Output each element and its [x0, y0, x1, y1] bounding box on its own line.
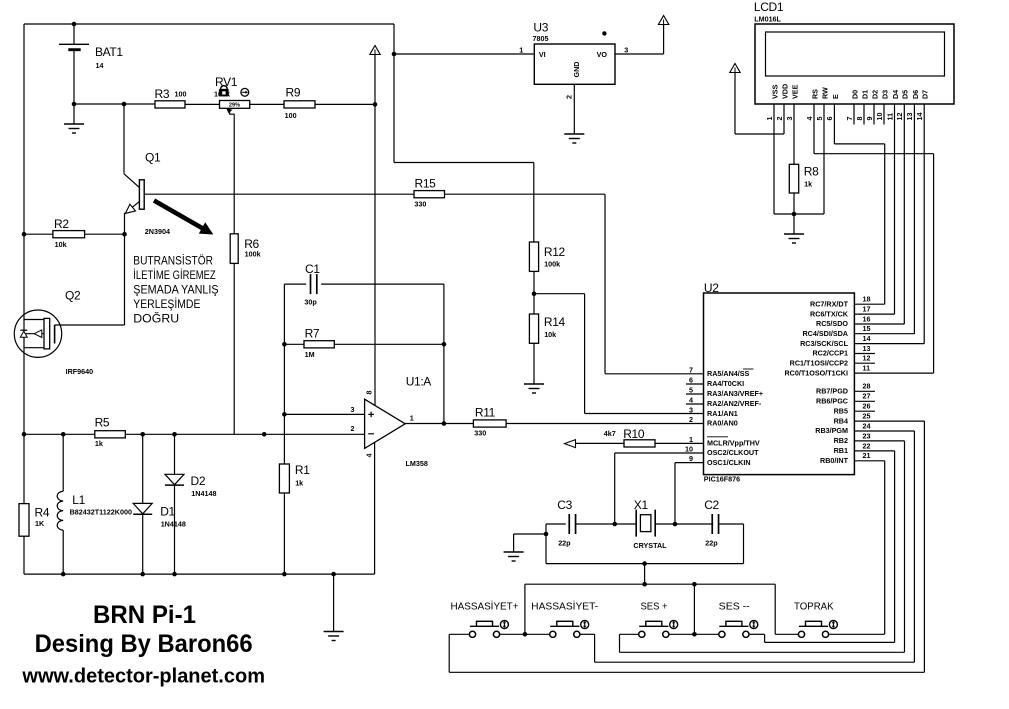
- svg-text:RC3/SCK/SCL: RC3/SCK/SCL: [800, 339, 849, 348]
- node OSC1 tap: [673, 522, 678, 527]
- node button rail center: [642, 582, 647, 587]
- wire VDD: [735, 133, 784, 135]
- wire R10 to U2 MCLR: [655, 442, 704, 444]
- svg-text:18: 18: [863, 295, 871, 304]
- svg-text:1N4148: 1N4148: [191, 489, 216, 498]
- wire OSC1 to crystal: [674, 463, 676, 524]
- svg-text:RB5: RB5: [834, 406, 848, 415]
- wire R15 to U2 RA5: [445, 193, 606, 195]
- icon RV1 adjust circle-arrow: [241, 88, 249, 96]
- svg-text:RS: RS: [810, 89, 819, 99]
- wire D7 to RC3: [923, 104, 925, 344]
- svg-text:HASSASİYET+: HASSASİYET+: [451, 599, 519, 612]
- wire button3 left to RB2 rail: [620, 633, 639, 635]
- U2 pin 12 RC1/T1OSI/CCP2: [854, 362, 875, 364]
- button HASSASIYET+: [469, 631, 475, 637]
- button TOPRAK: [798, 631, 804, 637]
- svg-text:D7: D7: [921, 90, 930, 99]
- svg-text:1: 1: [689, 435, 693, 444]
- U2 pin 17 RC6/TX/CK: [854, 313, 894, 315]
- svg-text:RA3/AN3/VREF+: RA3/AN3/VREF+: [707, 389, 763, 398]
- svg-text:D3: D3: [880, 90, 889, 99]
- diode D1 1N4148: [142, 434, 144, 503]
- svg-text:1: 1: [765, 117, 774, 121]
- node D2 top: [172, 432, 177, 437]
- node top-left junction: [72, 22, 77, 27]
- node R8 ground junction: [792, 212, 797, 217]
- regulator U3 7805: [534, 44, 615, 84]
- svg-text:1k: 1k: [95, 439, 103, 448]
- svg-text:330: 330: [474, 428, 486, 437]
- node Q1 emitter junction: [122, 232, 127, 237]
- node crystal loop bottom: [642, 561, 647, 566]
- U2 pin 4 RA2/AN2/VREF-: [686, 403, 704, 405]
- svg-text:4: 4: [689, 395, 693, 404]
- wire button common rail: [525, 583, 775, 585]
- U2 pin 13 RC2/CCP1: [854, 353, 875, 355]
- svg-text:9: 9: [689, 454, 693, 463]
- svg-text:2: 2: [689, 415, 693, 424]
- wire D2 stub: [873, 104, 875, 125]
- wire R9 to VCC line: [315, 103, 375, 105]
- svg-text:R2: R2: [54, 217, 69, 231]
- svg-text:22: 22: [863, 441, 871, 450]
- wire loop to button rail: [644, 564, 646, 585]
- button HASSASIYET-: [550, 631, 556, 637]
- wire bottom ground rail: [24, 573, 375, 575]
- wire R5 rail left: [22, 432, 27, 437]
- U2 pin 26 RB5: [854, 410, 875, 412]
- svg-text:100k: 100k: [245, 249, 261, 258]
- svg-text:3: 3: [624, 46, 628, 55]
- wire RB1 riser: [894, 451, 896, 643]
- svg-text:L1: L1: [72, 493, 85, 507]
- wire button4 right to RB1 rail: [750, 633, 765, 635]
- svg-text:10k: 10k: [544, 330, 556, 339]
- U2 pin 22 RB1: [854, 450, 894, 452]
- wire R11 to U2 RA0: [506, 423, 703, 425]
- U2 RA5 SS overline: [743, 368, 754, 370]
- resistor R11 330: [473, 420, 506, 427]
- svg-text:R8: R8: [804, 164, 819, 178]
- wire button1 left to RB4 rail: [449, 633, 469, 635]
- svg-text:VI: VI: [539, 50, 546, 59]
- resistor R3 100: [155, 101, 185, 108]
- svg-text:RB6/PGC: RB6/PGC: [816, 397, 848, 406]
- resistor R12 100k: [529, 242, 538, 271]
- svg-text:MCLR/Vpp/THV: MCLR/Vpp/THV: [707, 439, 760, 448]
- node rail mid dot: [262, 432, 267, 437]
- svg-text:14: 14: [863, 334, 871, 343]
- svg-text:11: 11: [863, 364, 871, 373]
- crystal X1: [635, 510, 637, 537]
- power VCC arrow LCD: [730, 64, 740, 73]
- ground crystal: [514, 533, 546, 535]
- svg-text:6: 6: [825, 117, 834, 121]
- svg-text:RA0/AN0: RA0/AN0: [707, 419, 738, 428]
- svg-text:D1: D1: [860, 90, 869, 99]
- svg-text:1k: 1k: [295, 478, 303, 487]
- svg-text:LM358: LM358: [406, 459, 428, 468]
- svg-text:RC7/RX/DT: RC7/RX/DT: [810, 299, 849, 308]
- svg-text:26: 26: [863, 402, 871, 411]
- svg-text:www.detector-planet.com: www.detector-planet.com: [21, 666, 265, 688]
- svg-text:VDD: VDD: [780, 84, 789, 99]
- node U3 input junction: [392, 52, 397, 57]
- svg-text:D2: D2: [870, 90, 879, 99]
- node battery junction: [72, 102, 77, 107]
- svg-text:ŞEMADA YANLIŞ: ŞEMADA YANLIŞ: [133, 284, 219, 296]
- wire rail down to SES buttons: [693, 584, 695, 634]
- svg-text:2: 2: [775, 117, 784, 121]
- resistor R1 1k: [283, 284, 285, 464]
- svg-text:RB1: RB1: [834, 446, 848, 455]
- node L1 top: [61, 432, 66, 437]
- ic U2 PIC16F876: [704, 293, 855, 475]
- svg-text:8: 8: [855, 117, 864, 121]
- ground under R14: [524, 383, 544, 385]
- svg-text:PIC16F876: PIC16F876: [704, 475, 740, 484]
- svg-text:D1: D1: [160, 505, 175, 519]
- U2 pin 18 RC7/RX/DT: [854, 303, 884, 305]
- U2 pin 11 RC0/T1OSO/T1CKI: [854, 372, 933, 374]
- svg-text:3: 3: [689, 405, 693, 414]
- svg-text:100: 100: [285, 111, 297, 120]
- svg-text:22p: 22p: [558, 538, 571, 547]
- svg-text:RB2: RB2: [834, 436, 848, 445]
- svg-text:RC6/TX/CK: RC6/TX/CK: [810, 309, 849, 318]
- svg-text:RC2/CCP1: RC2/CCP1: [812, 349, 848, 358]
- svg-text:C3: C3: [557, 498, 572, 512]
- node R12 R14 junction: [533, 271, 535, 293]
- node op-amp output: [442, 421, 447, 426]
- svg-text:BRN Pi-1: BRN Pi-1: [93, 601, 196, 629]
- wire LCD ground rail: [774, 213, 824, 215]
- U2 pin 23 RB2: [854, 440, 904, 442]
- svg-text:U2: U2: [704, 281, 719, 295]
- svg-text:OSC2/CLKOUT: OSC2/CLKOUT: [707, 448, 759, 457]
- svg-text:12: 12: [863, 354, 871, 363]
- svg-text:BUTRANSİSTÖR: BUTRANSİSTÖR: [133, 255, 213, 268]
- wire button2 right to RB3 rail: [580, 633, 595, 635]
- wire RB4 riser: [923, 421, 925, 672]
- svg-text:İLETİME GİREMEZ: İLETİME GİREMEZ: [133, 269, 215, 282]
- svg-text:DOĞRU: DOĞRU: [133, 312, 179, 325]
- wire RV1 wiper: [230, 111, 235, 119]
- svg-text:7805: 7805: [533, 34, 549, 43]
- wire VCC down to op-amp V+: [374, 55, 376, 406]
- svg-text:LCD1: LCD1: [754, 0, 784, 14]
- svg-text:5: 5: [815, 117, 824, 121]
- wire D3 stub: [883, 104, 885, 125]
- svg-text:R15: R15: [415, 177, 437, 191]
- wire button3-button4 link: [670, 633, 719, 635]
- svg-text:5: 5: [689, 385, 693, 394]
- svg-text:RB0/INT: RB0/INT: [820, 456, 849, 465]
- wire button5 right to RB0 rail: [829, 633, 884, 635]
- svg-text:R4: R4: [35, 506, 50, 520]
- svg-text:E: E: [831, 94, 840, 99]
- svg-text:23: 23: [863, 431, 871, 440]
- svg-text:22p: 22p: [705, 538, 718, 547]
- wire crystal loop: [545, 524, 547, 564]
- wire E route: [833, 104, 835, 144]
- svg-text:R11: R11: [475, 406, 496, 420]
- resistor R9 100: [284, 101, 315, 108]
- U2 pin 6 RA4/T0CKI: [686, 383, 704, 385]
- wire BAT1 to R3: [74, 103, 155, 105]
- svg-text:OSC1/CLKIN: OSC1/CLKIN: [707, 458, 751, 467]
- svg-text:RC1/T1OSI/CCP2: RC1/T1OSI/CCP2: [790, 358, 848, 367]
- transistor Q1 2N3904: [123, 104, 125, 174]
- svg-text:D6: D6: [911, 90, 920, 99]
- svg-text:Q1: Q1: [145, 151, 161, 165]
- node Q1 collector tap: [122, 102, 127, 107]
- svg-text:11: 11: [885, 113, 894, 121]
- svg-text:1k: 1k: [804, 179, 812, 188]
- U2 pin 25 RB4: [854, 420, 924, 422]
- svg-text:R9: R9: [286, 85, 301, 99]
- svg-text:Q2: Q2: [65, 289, 81, 303]
- node SES rail tap: [692, 582, 697, 587]
- arrow MCLR input: [565, 440, 576, 448]
- ground under U3: [564, 133, 584, 135]
- svg-text:X1: X1: [634, 498, 649, 512]
- svg-text:R3: R3: [155, 87, 170, 101]
- power VCC arrow mid: [370, 46, 380, 55]
- svg-text:13: 13: [905, 113, 914, 121]
- resistor R14 10k: [533, 294, 535, 314]
- op-amp U1:A LM358: [365, 399, 406, 448]
- svg-text:B82432T1122K000: B82432T1122K000: [70, 507, 132, 516]
- svg-text:SES +: SES +: [641, 601, 668, 612]
- svg-text:1K: 1K: [35, 519, 45, 528]
- wire corner to R12: [394, 162, 534, 164]
- resistor R5 1k: [95, 431, 126, 438]
- svg-text:100: 100: [175, 89, 187, 98]
- svg-text:16: 16: [863, 314, 871, 323]
- wire left rail upper: [23, 24, 25, 504]
- svg-text:R1: R1: [295, 463, 310, 477]
- U2 pin 15 RC4/SDI/SDA: [854, 333, 914, 335]
- node SES buttons junction: [692, 632, 697, 637]
- wire crystal top rail: [546, 523, 566, 525]
- wire rail down to buttons 1-2: [524, 584, 526, 634]
- node crystal ground tap: [544, 532, 549, 537]
- svg-text:SES --: SES --: [719, 601, 750, 612]
- node R9 vcc junction: [373, 102, 378, 107]
- svg-text:HASSASİYET-: HASSASİYET-: [531, 599, 598, 612]
- svg-text:D4: D4: [891, 90, 900, 99]
- diode D2 1N4148: [174, 434, 176, 474]
- U2 MCLR overline: [707, 436, 728, 438]
- svg-text:RB4: RB4: [834, 416, 848, 425]
- svg-text:7: 7: [689, 365, 693, 374]
- resistor R7 1M: [282, 342, 287, 347]
- svg-text:RA5/AN4/SS: RA5/AN4/SS: [707, 369, 750, 378]
- svg-text:RB3/PGM: RB3/PGM: [815, 426, 848, 435]
- U2 pin 24 RB3/PGM: [854, 430, 914, 432]
- svg-text:IRF9640: IRF9640: [66, 367, 94, 376]
- wire D4 to RC6: [894, 104, 896, 314]
- wire RB0 riser: [884, 461, 886, 635]
- wire D1 stub: [863, 104, 865, 125]
- wire U3 VO pin 3: [615, 53, 664, 55]
- svg-text:RC4/SDI/SDA: RC4/SDI/SDA: [802, 329, 848, 338]
- annotation thick arrow: [154, 201, 206, 231]
- wire RB2 riser: [904, 441, 906, 652]
- icon RV1 padlock: [221, 86, 228, 90]
- svg-text:3: 3: [785, 117, 794, 121]
- resistor R10 4k7: [624, 440, 655, 447]
- power VCC arrow U3 out: [658, 16, 668, 25]
- svg-text:D5: D5: [901, 90, 910, 99]
- svg-text:30p: 30p: [304, 297, 317, 306]
- svg-text:6: 6: [689, 375, 693, 384]
- wire VSS down: [773, 104, 775, 214]
- svg-text:3: 3: [351, 405, 355, 414]
- wire OSC2 to crystal: [614, 453, 616, 524]
- wire op-amp plus input: [282, 412, 287, 417]
- resistor R15 330: [414, 191, 445, 198]
- svg-text:D2: D2: [191, 474, 206, 488]
- svg-text:1N4148: 1N4148: [161, 519, 186, 528]
- capacitor C2 22p: [711, 514, 713, 534]
- capacitor C1 30p: [284, 283, 306, 285]
- wire U3 GND pin 2: [573, 84, 575, 133]
- svg-text:RW: RW: [820, 87, 829, 99]
- capacitor C3 22p: [568, 514, 570, 534]
- svg-text:RC5/SDO: RC5/SDO: [816, 319, 848, 328]
- svg-text:YERLEŞİMDE: YERLEŞİMDE: [133, 298, 200, 311]
- ground under BAT1: [73, 104, 75, 124]
- wire Q1 base line to R15: [144, 193, 414, 195]
- wire feedback right vertical: [443, 284, 445, 423]
- svg-text:GND: GND: [572, 62, 581, 78]
- svg-text:7: 7: [845, 117, 854, 121]
- inductor L1: [62, 434, 64, 491]
- svg-text:10: 10: [685, 444, 693, 453]
- svg-text:24: 24: [863, 421, 871, 430]
- resistor R6 100k: [233, 119, 235, 234]
- svg-text:14: 14: [915, 113, 924, 121]
- wire VEE to R8: [793, 104, 795, 164]
- svg-text:R12: R12: [544, 245, 566, 259]
- U2 pin 14 RC3/SCK/SCL: [854, 343, 924, 345]
- wire button1-button2 link: [500, 633, 550, 635]
- wire RS route: [813, 104, 815, 154]
- wire D5 to RC5: [903, 104, 905, 324]
- svg-text:LM016L: LM016L: [754, 15, 781, 24]
- svg-text:14: 14: [96, 61, 104, 70]
- svg-text:4: 4: [805, 117, 814, 121]
- svg-text:RA1/AN1: RA1/AN1: [707, 409, 738, 418]
- svg-text:VEE: VEE: [790, 84, 799, 99]
- svg-text:10k: 10k: [55, 240, 67, 249]
- wire RB3 riser: [913, 431, 915, 662]
- svg-text:2: 2: [351, 424, 355, 433]
- svg-text:R7: R7: [305, 327, 320, 341]
- svg-text:Desing By Baron66: Desing By Baron66: [35, 630, 253, 658]
- svg-text:C2: C2: [704, 498, 719, 512]
- U2 pin 5 RA3/AN3/VREF+: [686, 393, 704, 395]
- svg-text:330: 330: [414, 200, 426, 209]
- svg-text:100k: 100k: [544, 259, 560, 268]
- ground bottom rail: [333, 574, 335, 631]
- svg-text:9: 9: [865, 117, 874, 121]
- svg-text:VSS: VSS: [770, 84, 779, 99]
- resistor R2 10k: [22, 232, 27, 237]
- svg-text:2N3904: 2N3904: [145, 227, 170, 236]
- svg-text:TOPRAK: TOPRAK: [794, 601, 834, 612]
- resistor R8 1k: [789, 164, 798, 193]
- svg-text:D0: D0: [850, 90, 859, 99]
- wire D6 to RC4: [913, 104, 915, 334]
- wire Q1 emitter to Q2 gate: [124, 234, 126, 325]
- node buttons 1-2 junction: [523, 632, 528, 637]
- marker U3 dot: [602, 31, 606, 35]
- svg-text:27: 27: [863, 392, 871, 401]
- svg-text:4: 4: [365, 454, 374, 458]
- pot RV1 100k 29%: [220, 101, 250, 109]
- svg-text:17: 17: [863, 305, 871, 314]
- wire rail to TOPRAK: [774, 584, 776, 634]
- svg-text:10: 10: [875, 113, 884, 121]
- wire D0 stub: [853, 104, 855, 125]
- svg-text:U3: U3: [533, 21, 548, 35]
- svg-text:R14: R14: [544, 315, 566, 329]
- svg-text:8: 8: [365, 391, 374, 395]
- svg-text:1: 1: [410, 414, 414, 423]
- wire arrow to R10: [576, 442, 625, 444]
- transistor Q2 IRF9640: [14, 310, 61, 357]
- U2 pin 27 RB6/PGC: [854, 400, 875, 402]
- wire divider to U2 RA1: [534, 293, 585, 295]
- wire op-amp output: [405, 423, 473, 425]
- svg-text:BAT1: BAT1: [95, 45, 123, 59]
- svg-text:RA2/AN2/VREF-: RA2/AN2/VREF-: [707, 399, 762, 408]
- ground LCD: [793, 214, 795, 234]
- wire op-amp V- down: [374, 442, 376, 574]
- svg-text:4k7: 4k7: [604, 429, 616, 438]
- svg-text:U1:A: U1:A: [406, 374, 432, 388]
- resistor R4 1K: [19, 504, 29, 537]
- svg-text:RC0/T1OSO/T1CKI: RC0/T1OSO/T1CKI: [784, 368, 848, 377]
- svg-text:2: 2: [564, 95, 573, 99]
- wire top rail corner down: [393, 24, 395, 163]
- wire R3 to RV1: [185, 103, 220, 105]
- wire U3 VI pin 1: [394, 53, 534, 55]
- svg-text:CRYSTAL: CRYSTAL: [633, 541, 667, 550]
- svg-text:C1: C1: [305, 262, 320, 276]
- svg-text:13: 13: [863, 344, 871, 353]
- svg-text:VO: VO: [597, 50, 608, 59]
- svg-text:28: 28: [863, 382, 871, 391]
- svg-text:29%: 29%: [229, 102, 240, 108]
- U2 pin 28 RB7/PGD: [854, 390, 875, 392]
- button SES+: [639, 631, 645, 637]
- U2 pin 21 RB0/INT: [854, 460, 884, 462]
- wire R5 to op-amp minus: [125, 433, 364, 435]
- node ground rail tap: [331, 572, 336, 577]
- svg-text:RB7/PGD: RB7/PGD: [816, 387, 848, 396]
- node D1 top: [140, 432, 145, 437]
- svg-text:R10: R10: [623, 427, 645, 441]
- svg-text:RA4/T0CKI: RA4/T0CKI: [707, 379, 744, 388]
- svg-text:1M: 1M: [305, 350, 315, 359]
- svg-text:15: 15: [863, 324, 871, 333]
- svg-text:25: 25: [863, 412, 871, 421]
